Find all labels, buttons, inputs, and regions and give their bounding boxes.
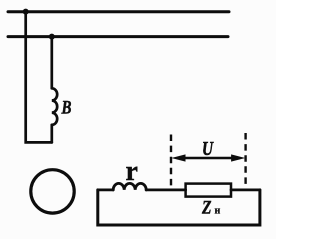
resistor Zн (load box) bbox=[186, 184, 231, 197]
dimension arrow U bbox=[181, 157, 236, 159]
node: tap junction on lower line bbox=[49, 34, 55, 40]
node: tap junction on upper line bbox=[23, 9, 29, 15]
instrument circle bbox=[31, 170, 74, 213]
dashed extension line right bbox=[244, 133, 246, 190]
wire: winding bottom to loop bbox=[50, 125, 53, 142]
inductor B (winding) bbox=[52, 88, 57, 125]
svg-text:U: U bbox=[202, 138, 214, 160]
svg-text:Z: Z bbox=[201, 198, 212, 219]
wire: left drop from upper line down and across bbox=[26, 12, 52, 143]
svg-text:r: r bbox=[126, 156, 138, 187]
svg-text:B: B bbox=[61, 98, 72, 119]
wire: loop top left segment bbox=[98, 188, 113, 191]
wire: loop top right segment bbox=[231, 188, 260, 191]
wire: load loop left/bottom/right sides bbox=[98, 190, 260, 225]
inductor r bbox=[113, 183, 146, 189]
wire: lower power line bbox=[8, 35, 228, 38]
dashed extension line left bbox=[170, 135, 172, 191]
wire: loop top middle segment bbox=[146, 188, 185, 191]
wire: upper power line bbox=[8, 10, 229, 13]
wire: right drop from lower line to winding bbox=[50, 37, 53, 89]
svg-text:н: н bbox=[215, 206, 221, 217]
